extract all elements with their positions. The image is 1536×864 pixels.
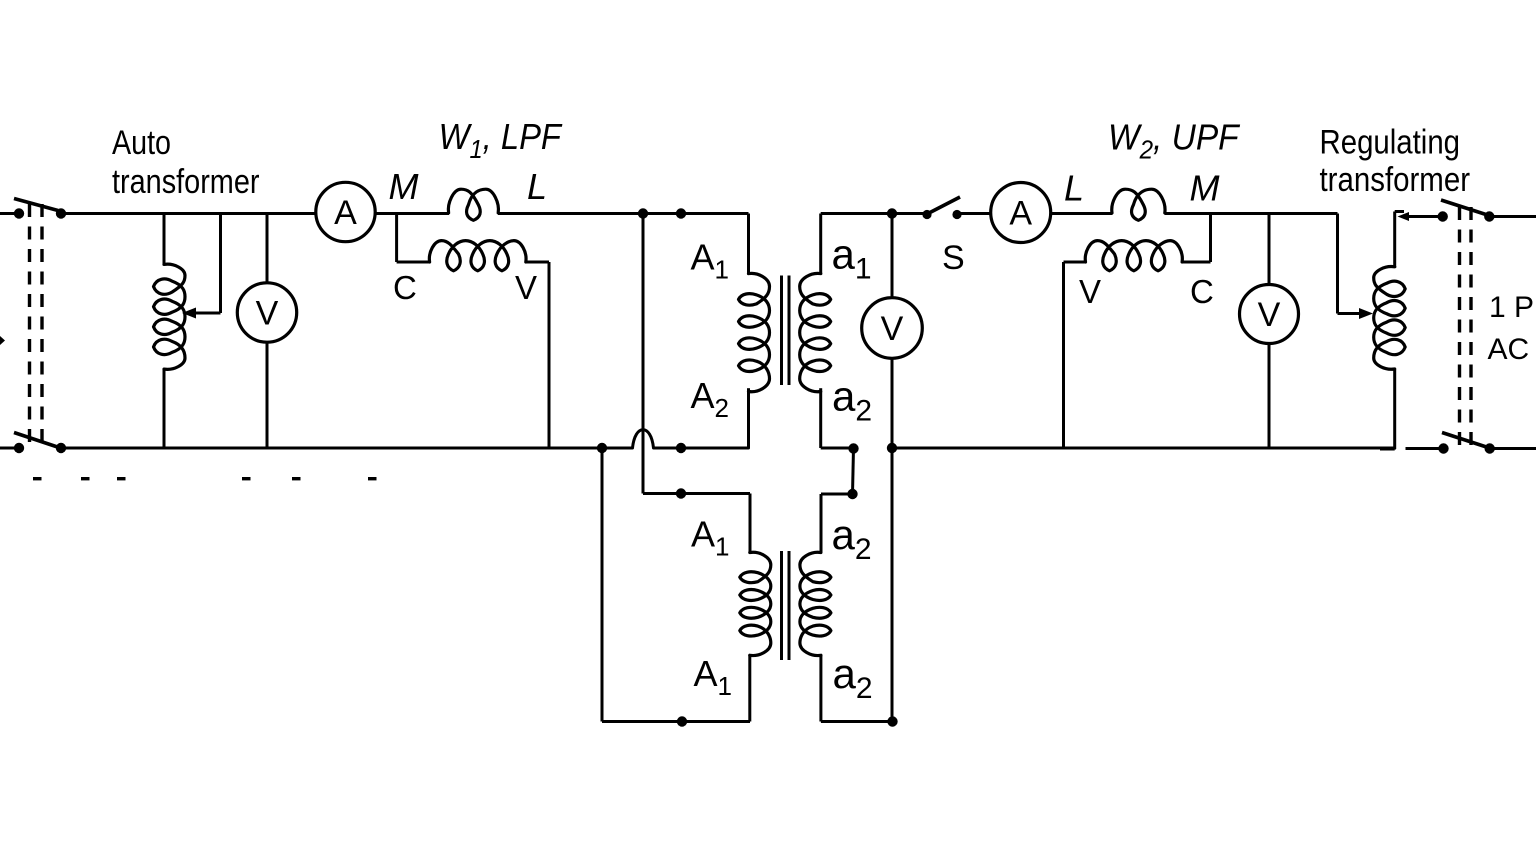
svg-text:Auto: Auto bbox=[112, 124, 171, 162]
label: Regulating transformer bbox=[1320, 124, 1471, 200]
switch: output DPST bottom pole bbox=[1438, 433, 1495, 454]
svg-text:A: A bbox=[334, 194, 357, 232]
node: T1 primary terminal on bottom rail bbox=[676, 443, 686, 453]
switch: output DPST top pole bbox=[1438, 200, 1495, 222]
svg-text:C: C bbox=[393, 269, 417, 306]
wire: crosslink from top rail down to T2 primary bbox=[643, 214, 750, 554]
svg-text:W2, UPF: W2, UPF bbox=[1108, 118, 1240, 164]
autotransformer winding bbox=[154, 214, 186, 449]
wire: T1 a2 jog to T2 secondary bbox=[821, 448, 854, 553]
node: a2 terminal upper bbox=[848, 443, 858, 453]
label: 1 Ph AC supply bbox=[1488, 291, 1536, 366]
regulating transformer top connection arrow bbox=[1398, 212, 1443, 221]
svg-text:A: A bbox=[1009, 195, 1032, 233]
node: top rail junction to crosslink bbox=[638, 208, 648, 218]
ammeter A2 (output) bbox=[991, 183, 1051, 243]
svg-text:C: C bbox=[1190, 273, 1214, 310]
svg-text:L: L bbox=[1064, 168, 1084, 209]
wire: a1 to voltmeter junction bbox=[821, 212, 927, 215]
svg-text:V: V bbox=[1079, 273, 1101, 310]
wire: W2 current coil to regulating transformer bbox=[1165, 212, 1338, 215]
svg-text:V: V bbox=[881, 310, 904, 348]
node: voltmeter V2 bottom junction bbox=[887, 443, 897, 453]
label: Auto transformer bbox=[112, 124, 260, 201]
transformer T2 secondary winding (a2-a2) bbox=[800, 552, 893, 721]
transformer T2 core bbox=[782, 551, 790, 660]
svg-text:S: S bbox=[942, 239, 965, 277]
node: T2 primary terminal on bottom wire bbox=[677, 716, 687, 726]
svg-text:1 Ph: 1 Ph bbox=[1489, 291, 1536, 324]
switch S (terminal dots + blade) bbox=[922, 197, 961, 219]
svg-text:V: V bbox=[256, 295, 279, 333]
transformer T1 core bbox=[782, 276, 790, 386]
svg-text:W1, LPF: W1, LPF bbox=[439, 118, 563, 165]
clipped mark at left edge bbox=[0, 336, 5, 345]
switch: input DPST top pole (terminal dots + blade) bbox=[14, 199, 66, 219]
wire: top-right supply lead bbox=[1493, 215, 1536, 218]
switch: input DPST bottom pole bbox=[14, 433, 66, 454]
voltmeter V2 (secondary loop) bbox=[862, 214, 923, 449]
svg-text:transformer: transformer bbox=[1320, 161, 1471, 199]
wire: bottom-left supply lead bbox=[0, 447, 15, 450]
wire: top rail (switch to W1 current coil) bbox=[61, 212, 449, 215]
svg-text:V: V bbox=[515, 269, 537, 306]
node: T2 secondary bottom junction bbox=[887, 716, 897, 726]
wire: switch S to W2 current coil bbox=[957, 212, 1113, 215]
node: voltmeter V2 top junction bbox=[887, 208, 897, 218]
wattmeter W2 pressure coil bbox=[1064, 214, 1211, 449]
wire: bottom rail to output switch bbox=[1406, 447, 1444, 450]
transformer T1 primary winding (A1-A2) bbox=[739, 214, 770, 449]
svg-text:L: L bbox=[527, 166, 547, 207]
ammeter A1 (input) bbox=[316, 182, 375, 241]
wattmeter W1 current coil bbox=[448, 189, 498, 220]
wire: bottom-right supply lead bbox=[1493, 447, 1536, 450]
node: bottom rail junction to T2 primary return bbox=[597, 443, 607, 453]
wattmeter W1 pressure coil bbox=[397, 214, 549, 449]
svg-text:Regulating: Regulating bbox=[1320, 124, 1461, 162]
dashed boundary marks (partial) bbox=[33, 477, 377, 480]
wire: top rail (W1 current coil to T1 primary) bbox=[498, 212, 749, 215]
wattmeter W2 current coil bbox=[1112, 189, 1165, 220]
wire: top-left supply lead bbox=[0, 212, 15, 215]
svg-text:M: M bbox=[1190, 168, 1220, 209]
node: a2 terminal lower bbox=[847, 489, 857, 499]
wire: bottom rail left with jump over crosslink bbox=[61, 430, 749, 448]
transformer T1 secondary winding (a1-a2) bbox=[800, 214, 831, 449]
svg-text:M: M bbox=[389, 166, 419, 207]
voltmeter V3 (output) bbox=[1240, 214, 1299, 449]
node: T1 primary terminal on top rail bbox=[676, 208, 686, 218]
transformer T2 primary winding (A1-A1) bbox=[740, 552, 771, 721]
wire: bottom rail right bbox=[892, 447, 1396, 450]
voltmeter V1 (input) bbox=[237, 214, 296, 449]
autotransformer tap wiper (arrow) bbox=[182, 214, 221, 319]
wire: V2 junction down to T2 secondary bbox=[891, 448, 894, 722]
svg-text:AC: AC bbox=[1488, 333, 1530, 366]
regulating transformer winding bbox=[1374, 212, 1406, 450]
mechanical linkage of input DPST (dashed) bbox=[30, 204, 43, 446]
node: T2 primary terminal on crosslink bbox=[676, 488, 686, 498]
svg-text:transformer: transformer bbox=[112, 163, 260, 201]
wire: T2 primary return to bottom rail bbox=[602, 448, 750, 722]
mechanical linkage of output DPST (dashed) bbox=[1460, 207, 1472, 449]
regulating transformer tap feed from W2 bbox=[1338, 214, 1374, 320]
svg-text:V: V bbox=[1258, 296, 1281, 334]
